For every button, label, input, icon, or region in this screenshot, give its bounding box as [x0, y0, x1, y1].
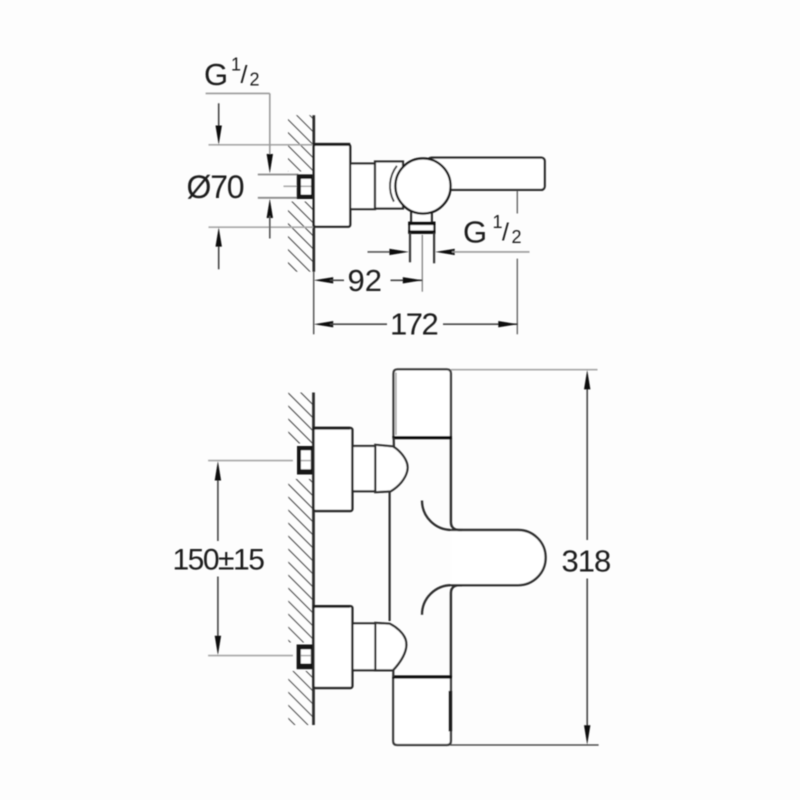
svg-text:/: /	[502, 219, 509, 247]
arrow down to pipe top	[267, 154, 273, 173]
G1/2 outlet left arrow	[389, 249, 409, 255]
body top section	[394, 369, 451, 437]
label G1/2 (outlet)	[463, 212, 522, 250]
svg-text:/: /	[241, 61, 248, 89]
body bottom section	[393, 677, 451, 745]
wall face line (bottom view)	[312, 393, 315, 726]
lower inlet tube	[352, 623, 375, 670]
leader under G1/2 label	[206, 92, 270, 94]
G1/2 outlet dim left line	[368, 251, 394, 253]
extension line 150 top	[208, 460, 293, 462]
G1/2 outlet right arrow	[435, 249, 455, 255]
wall face line (top view)	[312, 115, 315, 272]
svg-text:G: G	[204, 57, 228, 92]
svg-text:G: G	[463, 215, 487, 250]
extension line 318 bottom	[450, 744, 598, 746]
Ø70 dimension arrows	[216, 103, 222, 269]
dimension 150±15	[173, 461, 265, 655]
lower inlet nut behind wall	[297, 645, 314, 670]
outlet centerline	[421, 235, 423, 292]
cartridge sleeve arc	[390, 166, 397, 202]
svg-text:1: 1	[231, 55, 241, 75]
svg-text:150±15: 150±15	[173, 543, 265, 576]
extension line 318 top	[451, 369, 598, 371]
lower inlet collar and dome	[375, 623, 406, 671]
lower escutcheon top edge (thick)	[313, 605, 351, 608]
wall line extension down	[313, 272, 315, 335]
svg-text:92: 92	[348, 263, 382, 298]
dimension 172	[314, 307, 518, 342]
extension line Ø70 bottom	[209, 226, 314, 228]
bottom cap edge (thick)	[448, 691, 452, 731]
divider line bottom section	[392, 675, 452, 678]
leader from lever to 172 extension	[516, 191, 518, 214]
mounting cylinder (top view)	[350, 164, 375, 210]
dimension 318	[562, 370, 611, 745]
arrow up to pipe bottom	[267, 199, 273, 218]
divider line top section	[392, 436, 452, 439]
svg-text:2: 2	[250, 70, 260, 90]
wall hatch upper (top view)	[288, 115, 313, 171]
upper inlet tube	[352, 446, 375, 491]
supply pipe (top view)	[258, 175, 299, 198]
svg-text:Ø70: Ø70	[187, 169, 244, 205]
body neck left edge between inlets	[389, 493, 391, 622]
body middle and outlet boss outline	[451, 438, 546, 677]
wall hatch lower (top view)	[288, 202, 313, 272]
svg-text:2: 2	[512, 227, 522, 247]
G1/2 outlet dim right line	[452, 251, 530, 253]
extension line 150 bottom	[208, 655, 293, 657]
wall hatch bottom (bottom view)	[288, 671, 313, 725]
wall hatch top (bottom view)	[288, 393, 313, 444]
body edge stub above dome	[393, 438, 395, 448]
escutcheon top edge (thick)	[313, 143, 351, 146]
escutcheon (top view)	[314, 144, 350, 226]
svg-text:1: 1	[493, 212, 503, 232]
upper inlet nut behind wall	[297, 446, 314, 475]
lever handle (top view)	[428, 158, 545, 190]
wall hatch middle (bottom view)	[288, 479, 313, 643]
label G1/2 (top-left)	[204, 55, 260, 93]
union nut behind wall (top view)	[297, 174, 315, 199]
svg-text:172: 172	[390, 307, 437, 342]
svg-text:318: 318	[562, 544, 611, 579]
lower inlet escutcheon	[314, 606, 353, 688]
cartridge circle (top view)	[395, 158, 450, 213]
body silhouette line (top section)	[395, 373, 397, 436]
dimension 92	[314, 263, 423, 298]
upper inlet collar and dome	[375, 445, 407, 492]
lower spout fillet curve	[422, 585, 462, 615]
outlet neck below circle	[411, 210, 432, 223]
leader vertical to pipe top	[269, 93, 271, 156]
body edge stub below dome	[392, 670, 394, 677]
extension line Ø70 top	[209, 144, 314, 146]
outlet pipe stub G1/2	[410, 233, 434, 263]
outlet collar nut	[408, 223, 435, 233]
upper inlet escutcheon	[314, 428, 353, 511]
tail below pipe arrow	[269, 216, 271, 239]
upper escutcheon top edge (thick)	[313, 427, 351, 430]
upper spout fillet curve	[422, 501, 462, 531]
valve body tube (top view)	[375, 162, 403, 209]
